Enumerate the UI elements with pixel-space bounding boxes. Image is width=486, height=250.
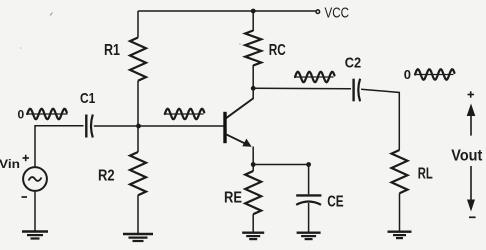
wire: R2 to ground xyxy=(137,195,139,233)
ground (Vin) xyxy=(22,232,48,239)
scan speck 3 xyxy=(239,43,241,45)
transistor Q1 collector diagonal xyxy=(226,98,253,118)
source Vin minus sign xyxy=(22,196,28,198)
source Vin tilde xyxy=(29,177,42,181)
wire: RC top lead xyxy=(252,11,254,31)
transistor Q1 emitter arrowhead xyxy=(242,139,251,147)
svg-text:CE: CE xyxy=(327,194,344,211)
node: emitter junction xyxy=(251,162,256,167)
wire: emitter vertical xyxy=(252,147,254,165)
Vout minus sign xyxy=(469,216,476,218)
waveform collector sine xyxy=(294,72,335,82)
transistor Q1 emitter diagonal xyxy=(226,134,248,144)
wire: C2 to RL branch xyxy=(361,89,399,150)
svg-text:RC: RC xyxy=(269,42,286,59)
svg-text:RE: RE xyxy=(224,190,242,207)
resistor R1 xyxy=(130,38,146,81)
svg-text:Vin: Vin xyxy=(0,157,20,171)
ground (CE) xyxy=(297,233,321,239)
node: collector junction xyxy=(251,86,256,91)
svg-text:RL: RL xyxy=(418,166,433,183)
wire: input wire Vin to C1 xyxy=(35,126,84,167)
wire: C1 to base xyxy=(94,125,224,127)
resistor RE xyxy=(245,171,261,214)
waveform base sine xyxy=(164,109,204,119)
waveform input sine xyxy=(26,109,68,119)
capacitor C1 xyxy=(86,115,93,138)
source Vin plus sign xyxy=(23,155,30,161)
resistor RC xyxy=(245,31,261,66)
svg-text:0: 0 xyxy=(404,67,411,82)
scan speck 1 xyxy=(50,13,53,16)
transistor Q1 base bar xyxy=(223,112,226,143)
source Vin AC circle xyxy=(23,167,47,191)
capacitor C2 xyxy=(354,79,361,102)
wire: R2 top lead xyxy=(137,126,139,152)
Vout down arrow xyxy=(467,166,475,212)
waveform output sine xyxy=(414,69,455,79)
ground (RL) xyxy=(388,232,412,238)
wire: R1 top lead xyxy=(137,11,139,38)
svg-text:R2: R2 xyxy=(98,168,115,185)
wire: CE to ground xyxy=(308,203,310,233)
wire: RL to ground xyxy=(399,193,401,231)
ground (R2) xyxy=(123,234,153,241)
svg-text:Vout: Vout xyxy=(451,147,482,164)
svg-text:0: 0 xyxy=(18,108,25,122)
Vout plus sign xyxy=(468,91,475,97)
wire: Vin to ground xyxy=(34,192,36,232)
scan speck 2 xyxy=(20,47,22,49)
wire: emitter node to CE xyxy=(253,164,308,166)
svg-text:C1: C1 xyxy=(80,90,95,107)
wire: CE top lead xyxy=(308,165,310,195)
wire: RE top lead xyxy=(252,165,254,172)
node: VCC rail junction xyxy=(251,9,256,14)
Vout up arrow xyxy=(467,104,476,136)
wire: RE to ground xyxy=(252,214,254,232)
ground (RE) xyxy=(242,233,264,239)
resistor RL xyxy=(392,150,408,193)
svg-text:C2: C2 xyxy=(345,55,361,72)
wire: collector node to C2 xyxy=(253,87,351,90)
wire: collector vertical xyxy=(252,88,254,99)
capacitor CE xyxy=(296,195,321,204)
wire: VCC top rail xyxy=(138,10,316,12)
svg-text:R1: R1 xyxy=(104,42,120,59)
VCC terminal open circle xyxy=(316,10,320,14)
resistor R2 xyxy=(130,152,146,195)
svg-text:VCC: VCC xyxy=(325,5,350,21)
wire: R1 bottom lead to base node xyxy=(137,81,139,126)
node: base/divider junction xyxy=(136,124,141,129)
wire: RC bottom lead xyxy=(252,65,254,88)
node: CE junction xyxy=(306,162,311,167)
